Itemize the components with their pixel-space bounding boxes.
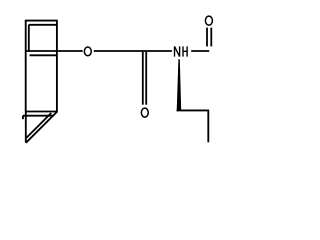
stereo wedge bond N to chain — [177, 59, 182, 111]
ring A top outer bond — [25, 20, 58, 22]
ring C top inner bond (double) — [23, 115, 54, 117]
chain bond horizontal — [177, 109, 210, 111]
formyl C=O double bond — [207, 28, 211, 47]
ring B top inner bond (double) — [30, 54, 57, 56]
atom N of NH — [175, 46, 180, 56]
atom H of NH — [183, 46, 187, 56]
ring right edge bond — [56, 20, 58, 111]
ring B top / bond to O — [26, 50, 83, 52]
ring A top inner bond (double) — [29, 24, 57, 26]
chain bond vertical — [207, 110, 209, 142]
ring C inner tick — [22, 116, 24, 120]
atom O1 (ester oxygen) — [84, 47, 91, 56]
bond O1 to carbonyl C to N — [94, 50, 172, 52]
ring C hypotenuse outer bond — [26, 112, 57, 143]
ring C hypotenuse inner bond (double) — [26, 113, 51, 138]
ring A outer left edge (wire) — [25, 20, 27, 111]
carbonyl C=O double bond — [143, 52, 146, 105]
bond NH to formyl C — [191, 50, 209, 52]
atom O3 (formyl oxygen) — [205, 16, 212, 25]
atom O2 (carbonyl oxygen) — [141, 108, 148, 117]
ring A left inner bond (double) — [28, 25, 30, 51]
ring B bottom outer bond — [25, 111, 57, 113]
ring C left edge bond — [25, 111, 27, 142]
